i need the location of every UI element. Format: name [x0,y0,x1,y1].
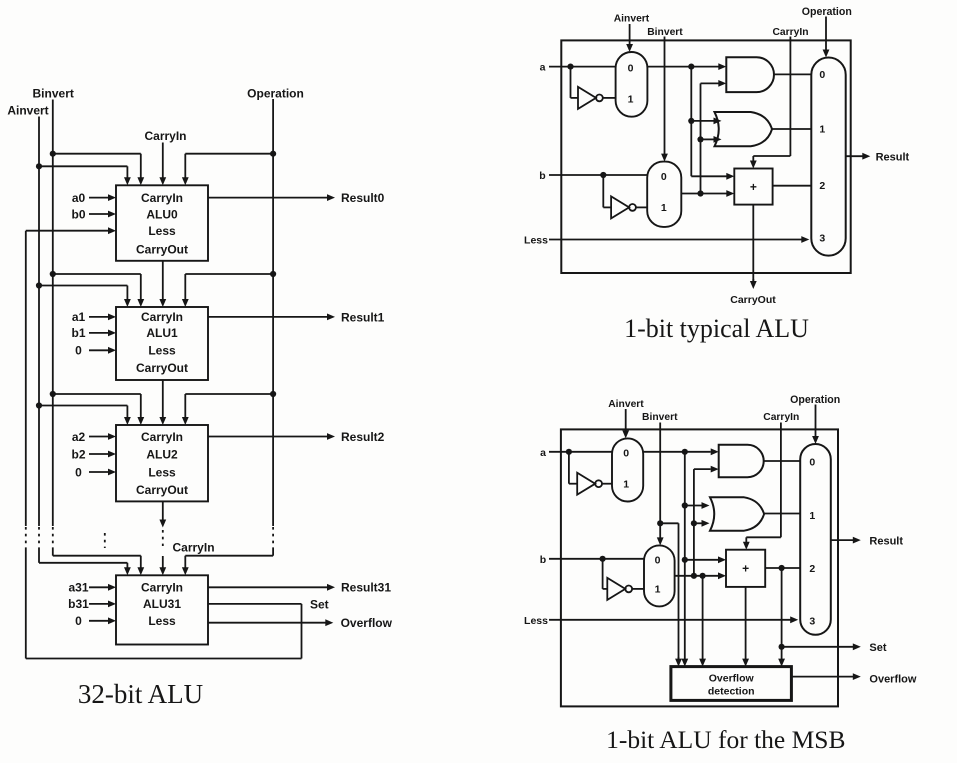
svg-text:b: b [539,170,545,182]
wire Binvert vertical lower segment [52,550,54,556]
wire node B vertical (MSB) [693,469,695,576]
svg-text:CarryOut: CarryOut [136,483,188,497]
enclosure box (MSB ALU) [561,429,838,706]
wire a to inverter [570,67,572,98]
wire adder sum to result mux input 2 [773,185,812,187]
wire Operation branch to ALU31 [185,555,273,557]
wire Ainvert branch to ALU31 [39,562,127,564]
wire Operation vertical bus [272,99,274,526]
wire inverter to b-mux input 1 (MSB) [632,588,644,590]
svg-text:a0: a0 [72,191,86,205]
svg-text:0: 0 [75,344,82,358]
svg-text:1: 1 [819,124,825,136]
svg-text:Binvert: Binvert [647,27,683,38]
svg-text:0: 0 [75,465,82,479]
OR gate (MSB) [710,497,764,530]
junction node A [688,64,694,70]
svg-text:Ainvert: Ainvert [7,104,48,118]
wire Binvert branch to ALU1 [50,271,56,277]
wire node B to AND gate input [701,82,719,84]
wire adder CarryOut to overflow detection [745,587,747,660]
junction a to inverter (MSB) [566,449,572,455]
svg-text:Less: Less [524,615,548,627]
wire adder sum to result mux input 2 (MSB) [765,567,800,569]
wire node B from b-mux to adder (MSB) [675,575,719,577]
svg-text:Overflow: Overflow [709,673,755,685]
svg-text:CarryIn: CarryIn [144,129,186,143]
wire node B to OR gate input (MSB) [694,522,702,524]
svg-text:1: 1 [661,202,667,214]
wire Ainvert vertical bus [38,117,40,527]
inverter for b (typical) [611,196,629,218]
svg-text:Result1: Result1 [341,310,385,324]
wire Binvert control into b-mux (MSB) [659,423,661,539]
svg-text:+: + [742,562,749,576]
svg-text:ALU31: ALU31 [143,597,181,611]
svg-text:2: 2 [819,180,825,192]
wire Less input of ALU0 from Set feedback [26,230,109,232]
wire input b (MSB) [549,558,644,560]
wire a to inverter (MSB) [568,452,570,484]
wire Ainvert control into a-mux [629,24,631,45]
wire Ainvert control into a-mux (MSB) [625,409,627,431]
junction node B to OR gate [697,136,703,142]
wire Binvert branch to ALU31 [53,555,141,557]
wire Operation branch to ALU2 [270,391,276,397]
svg-text:a: a [540,62,546,74]
svg-text:1: 1 [655,584,661,596]
svg-text:0: 0 [75,614,82,628]
svg-text:a2: a2 [72,430,86,444]
overflow detection block [671,667,792,701]
wire node A vertical [690,67,692,177]
junction node B down tap (MSB) [700,573,706,579]
junction node B [697,190,703,196]
svg-text:1-bit typical ALU: 1-bit typical ALU [624,314,809,343]
svg-text:Result: Result [876,151,910,163]
adder (MSB) [726,550,765,587]
svg-text:1-bit ALU for the MSB: 1-bit ALU for the MSB [606,725,845,754]
svg-text:Result31: Result31 [341,581,391,595]
junction Binvert tap (MSB) [657,520,663,526]
svg-text:a31: a31 [68,581,88,595]
junction adder sum to Set tap [779,565,785,571]
wire node A into adder [691,175,727,177]
svg-text:Binvert: Binvert [642,412,678,423]
wire CarryIn control run [789,37,791,157]
svg-text:Ainvert: Ainvert [608,399,644,410]
wire Ainvert branch to ALU0 [36,163,42,169]
inverter for a (typical) [578,87,596,109]
ALU block ALU2 [116,425,208,501]
AND gate (typical) [726,57,774,92]
svg-text:32-bit ALU: 32-bit ALU [78,679,203,709]
wire Set output of ALU31 [208,603,302,605]
b-invert mux (MSB) [644,545,675,606]
junction b to inverter (MSB) [600,556,606,562]
wire CarryIn arrow into ALU0 [162,143,164,179]
wire Overflow output (MSB) [791,676,853,678]
junction node A to OR gate (MSB) [682,502,688,508]
svg-text:Ainvert: Ainvert [614,14,650,25]
svg-text:CarryOut: CarryOut [730,294,776,306]
output wire Result31 [208,586,328,588]
wire Result output (MSB) [831,539,854,541]
wire Operation control into result mux (MSB) [815,405,817,438]
svg-text:Operation: Operation [247,87,304,101]
wire node B tap to overflow detection [702,576,704,660]
inverter for b (MSB) [607,578,625,600]
svg-text:ALU2: ALU2 [146,447,178,461]
svg-text:+: + [750,180,757,194]
svg-text:ALU1: ALU1 [146,326,178,340]
wire node B vertical [700,83,702,193]
svg-text:1: 1 [809,510,815,522]
inverter for a (MSB) [577,473,595,495]
ALU block ALU31 [116,575,208,644]
wire Ainvert branch to ALU2 [36,402,42,408]
wire b to inverter (MSB) [602,559,604,589]
wire carry chain ALU0 CarryOut to ALU1 CarryIn [162,261,164,300]
wire Operation branch to ALU0 [270,151,276,157]
adder (typical) [734,169,772,205]
svg-text:a: a [540,447,546,459]
wire Binvert branch to ALU0 [50,151,56,157]
svg-text:3: 3 [819,233,825,245]
wire b to inverter [602,175,604,207]
OR gate (typical) [715,112,773,146]
svg-text:Less: Less [148,224,176,238]
svg-text:Result: Result [869,535,903,547]
wire Binvert control into b-mux [664,37,666,155]
svg-text:Less: Less [148,344,176,358]
svg-text:Overflow: Overflow [869,673,917,685]
wire input a (MSB) [549,451,612,453]
a-invert mux (typical) [616,52,648,117]
svg-text:0: 0 [809,456,815,468]
wire AND output to result mux input 0 (MSB) [764,460,801,462]
wire Result output (typical) [846,155,864,157]
output wire Result1 [208,316,328,318]
ellipsis dots between input stubs [104,533,106,548]
svg-text:CarryIn: CarryIn [173,541,215,555]
wire node A vertical (MSB) [684,452,686,660]
junction a to inverter [567,64,573,70]
wire OR output to result mux input 1 [771,128,811,130]
svg-text:Less: Less [148,465,176,479]
wire node A from a-mux to AND gate (MSB) [643,451,711,453]
junction b to inverter [600,172,606,178]
svg-text:CarryIn: CarryIn [141,310,183,324]
b-invert mux (typical) [647,162,681,227]
svg-text:CarryOut: CarryOut [136,361,188,375]
svg-text:b31: b31 [68,597,89,611]
svg-text:Set: Set [310,598,329,612]
wire carry chain into ALU31 CarryIn [162,556,164,568]
wire Binvert tap to overflow detection [660,522,678,524]
svg-text:CarryIn: CarryIn [141,191,183,205]
wire node A from a-mux to AND gate [647,66,718,68]
svg-text:3: 3 [809,615,815,627]
junction node A to OR gate [688,118,694,124]
junction node B up branch (MSB) [691,573,697,579]
wire CarryIn into adder (MSB) [745,537,747,542]
wire node A to OR gate input (MSB) [685,505,702,507]
output wire Result0 [208,197,328,199]
svg-text:Less: Less [524,235,548,247]
wire Ainvert vertical dotted continuation [38,527,40,550]
wire Binvert vertical dotted continuation [52,527,54,550]
ALU block ALU1 [116,307,208,380]
svg-text:Operation: Operation [802,6,852,18]
result mux (typical) [811,58,845,256]
svg-text:ALU0: ALU0 [146,207,178,221]
svg-text:CarryIn: CarryIn [141,581,183,595]
svg-text:0: 0 [623,448,629,460]
wire Ainvert vertical lower segment [38,550,40,563]
wire CarryIn into adder [752,156,754,162]
svg-text:0: 0 [661,171,667,183]
junction Set takeoff [779,644,785,650]
svg-text:Set: Set [869,642,886,654]
wire Less into result mux input 3 [549,239,802,241]
wire AND output to result mux input 0 [774,73,811,75]
wire input a [549,66,616,68]
svg-text:1: 1 [628,94,634,106]
svg-text:CarryIn: CarryIn [772,27,808,38]
wire Operation branch to ALU1 [270,271,276,277]
svg-text:detection: detection [708,686,755,698]
wire Operation control into result mux [825,17,827,51]
svg-text:0: 0 [655,555,661,567]
svg-text:b0: b0 [71,207,85,221]
svg-text:0: 0 [819,69,825,81]
wire adder CarryOut down [752,205,754,281]
wire Overflow output of ALU31 [208,622,326,624]
wire carry chain dotted continuation [162,530,164,546]
junction node A (MSB) [682,449,688,455]
wire Binvert branch to ALU2 [50,391,56,397]
svg-text:CarryIn: CarryIn [141,430,183,444]
wire node B to OR gate input [701,138,714,140]
wire node A to OR gate input [691,120,713,122]
wire Operation vertical lower segment [272,550,274,556]
svg-text:Result2: Result2 [341,430,385,444]
wire inverter to b-mux input 1 [636,206,647,208]
wire Set feedback vertical lower [25,550,27,659]
result mux (MSB) [800,444,831,635]
wire input b [549,174,647,176]
wire Set feedback bottom run [26,658,302,660]
svg-text:2: 2 [809,563,815,575]
wire Set output (MSB) [782,646,854,648]
wire CarryIn control run (MSB) [780,423,782,538]
wire node B from b-mux to adder [681,193,727,195]
wire Set feedback vertical (left) [25,231,27,526]
wire carry chain ALU2 CarryOut dangling arrow [162,501,164,520]
svg-text:a1: a1 [72,310,86,324]
svg-text:CarryOut: CarryOut [136,242,188,256]
wire node A into adder (MSB) [685,559,719,561]
wire OR output to result mux input 1 (MSB) [764,513,800,515]
output wire Result2 [208,436,328,438]
svg-text:Overflow: Overflow [341,616,393,630]
wire Binvert vertical bus [52,100,54,527]
svg-text:1: 1 [623,479,629,491]
svg-text:b2: b2 [71,447,85,461]
wire inverter to a-mux input 1 [603,97,616,99]
wire node B to AND gate input (MSB) [694,468,711,470]
wire Set tap vertical [781,568,783,660]
wire Set feedback dotted continuation [25,527,27,550]
wire inverter to a-mux input 1 (MSB) [602,483,612,485]
svg-text:Binvert: Binvert [33,87,74,101]
wire Operation vertical dotted continuation [272,527,274,550]
enclosure box (1-bit typical ALU) [561,40,850,273]
svg-text:Operation: Operation [790,394,840,406]
svg-text:Result0: Result0 [341,191,385,205]
wire Less into result mux input 3 (MSB) [549,619,791,621]
junction node B to OR gate (MSB) [691,520,697,526]
svg-text:0: 0 [628,62,634,74]
a-invert mux (MSB) [612,438,643,501]
wire Ainvert branch to ALU1 [36,282,42,288]
wire carry chain ALU1 CarryOut to ALU2 CarryIn [162,380,164,418]
svg-text:b1: b1 [71,326,85,340]
AND gate (MSB) [719,445,764,477]
svg-text:CarryIn: CarryIn [763,412,799,423]
junction node A to adder (MSB) [682,557,688,563]
svg-text:Less: Less [148,614,176,628]
ALU block ALU0 [116,185,208,260]
svg-text:b: b [540,554,546,566]
